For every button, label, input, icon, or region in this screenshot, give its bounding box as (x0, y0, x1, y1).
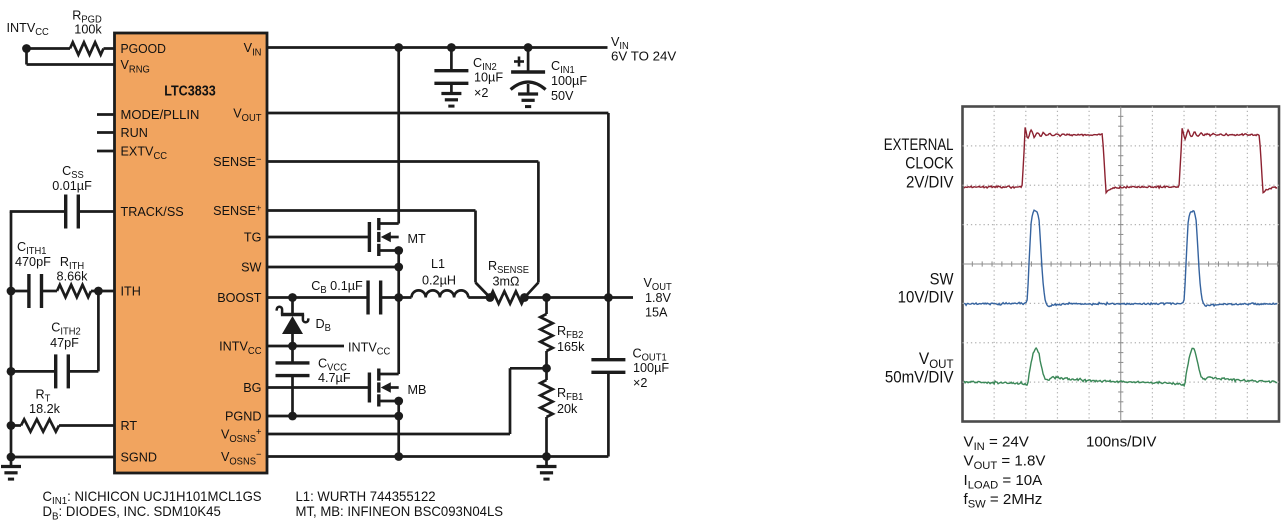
svg-text:PGND: PGND (225, 408, 262, 423)
wire VOUT feedback drop (607, 113, 610, 298)
wire RFB1 top lead (545, 368, 548, 380)
plus sign CIN1 (514, 60, 524, 63)
svg-text:RT: RT (120, 418, 137, 433)
svg-text:100µF: 100µF (633, 360, 669, 375)
wire MB source down (397, 401, 400, 457)
wire SENSE- horizontal (267, 160, 538, 163)
wire SENSE+ horizontal (267, 209, 476, 212)
wire CIN2 to ground (450, 84, 453, 94)
svg-text:BG: BG (243, 380, 261, 395)
svg-text:TG: TG (244, 229, 262, 244)
wire COUT bottom lead (607, 373, 610, 457)
junction CVCC PGND (288, 412, 297, 421)
wire VIN rail (267, 46, 608, 49)
wire output rail (525, 296, 634, 299)
svg-text:PGOOD: PGOOD (121, 41, 167, 57)
wire CIN1 to ground (527, 84, 530, 94)
wire VOSNS+ riser (509, 368, 512, 434)
wire CB to L1 (380, 296, 411, 299)
waveform SW trace (blue) (964, 210, 1277, 306)
wire COUT top lead (607, 298, 610, 360)
wire CITH2 riser (97, 291, 100, 371)
junction rail SGND (7, 453, 16, 462)
wire RPGD to PGOOD pin (104, 47, 115, 50)
wire VOUT pin (267, 112, 608, 115)
op IC U1 LTC3833 body (115, 33, 268, 473)
wire left rail vertical (10, 212, 13, 467)
wire SENSE+ vertical (474, 211, 477, 283)
junction SW (394, 263, 403, 272)
wire DB anode to INTVCC wire (291, 334, 294, 346)
svg-text:EXTERNAL: EXTERNAL (884, 137, 954, 155)
wire DB cathode stub (291, 298, 294, 314)
wire CITH2 left (11, 370, 56, 373)
wire RT to pin (59, 424, 115, 427)
junction VOSNS- MB (394, 452, 403, 461)
svg-text:L1: WURTH 744355122: L1: WURTH 744355122 (295, 489, 435, 504)
svg-text:MODE/PLLIN: MODE/PLLIN (121, 107, 200, 122)
svg-text:100µF: 100µF (551, 73, 587, 88)
wire RFB2 top lead (545, 298, 548, 315)
ground CIN2 (441, 92, 461, 95)
svg-text:100ns/DIV: 100ns/DIV (1086, 433, 1156, 450)
wire SW pin (267, 266, 399, 269)
svg-text:L1: L1 (431, 256, 445, 271)
junction SW node at CB/L1 (394, 293, 403, 302)
junction ITH-CITH2 riser (94, 287, 103, 296)
svg-text:20k: 20k (557, 401, 578, 416)
transistor MT (368, 222, 371, 252)
svg-text:SW: SW (930, 271, 954, 289)
wire VIN trunk vertical (397, 48, 400, 224)
resistor RT (21, 419, 59, 431)
wire MB drain to SW node (397, 298, 400, 375)
wire L1 to RSENSE (468, 296, 490, 299)
pin stub RUN (97, 131, 115, 134)
wire SENSE- kelvin diagonal (525, 283, 539, 298)
junction VIN trunk (394, 43, 403, 52)
junction DB boost (288, 293, 297, 302)
capacitor CSS (64, 195, 67, 229)
svg-text:50mV/DIV: 50mV/DIV (885, 369, 954, 387)
wire PGND pin (267, 415, 399, 418)
svg-text:VIN = 24V: VIN = 24V (964, 433, 1029, 453)
junction rail RT (7, 421, 16, 430)
capacitor CVCC (276, 361, 310, 364)
junction RFB2 top (542, 293, 551, 302)
ground output (537, 465, 557, 468)
resistor RFB2 (540, 314, 552, 351)
svg-text:SGND: SGND (120, 449, 157, 464)
svg-text:2V/DIV: 2V/DIV (906, 174, 954, 192)
svg-text:MT: MT (408, 231, 426, 246)
ground left rail (1, 465, 21, 468)
resistor RSENSE (490, 291, 525, 303)
transistor MB (368, 373, 371, 403)
diode DB schottky (281, 313, 304, 316)
pin stub EXTVCC (97, 150, 115, 153)
svg-text:BOOST: BOOST (217, 290, 261, 305)
wire VRNG (27, 63, 115, 66)
svg-text:165k: 165k (557, 339, 585, 354)
svg-text:0.2µH: 0.2µH (422, 272, 456, 287)
wire CITH1 to rail (11, 290, 29, 293)
svg-text:6V TO 24V: 6V TO 24V (611, 49, 676, 64)
junction RFB1 bottom (542, 452, 551, 461)
waveform EXTERNAL CLOCK trace (red) (964, 127, 1277, 192)
wire CITH2 right (69, 370, 99, 373)
inductor L1 (412, 290, 469, 297)
junction MB PGND (394, 412, 403, 421)
waveform VOUT ripple trace (green) (964, 348, 1277, 386)
svg-text:4.7µF: 4.7µF (318, 370, 351, 385)
capacitor CIN2 (434, 69, 468, 72)
wire RITH to CITH1 (42, 290, 57, 293)
junction CIN1 (524, 43, 533, 52)
svg-text:10V/DIV: 10V/DIV (898, 289, 954, 307)
wire CVCC to PGND (291, 375, 294, 417)
resistor RITH (57, 285, 91, 297)
junction RSENSE right (520, 293, 529, 302)
wire BOOST pin to CB (267, 296, 368, 299)
wire INTVCC down (25, 47, 28, 64)
svg-text:0.01µF: 0.01µF (52, 178, 92, 193)
svg-text:1.8V: 1.8V (645, 290, 671, 305)
svg-text:8.66k: 8.66k (57, 268, 88, 283)
wire VOSNS- pin (267, 455, 608, 458)
junction rail ITH (7, 287, 16, 296)
wire rail to RT (11, 424, 21, 427)
capacitor CIN1 polarized (511, 70, 545, 73)
svg-text:47pF: 47pF (50, 335, 79, 350)
wire ground stub output (545, 457, 548, 467)
wire SENSE- vertical (537, 162, 540, 283)
wire TG (267, 236, 369, 239)
wire SENSE+ kelvin diagonal (476, 283, 491, 298)
pin stub MODE/PLLIN (97, 113, 115, 116)
wire RFB1 bottom lead (545, 417, 548, 457)
svg-text:3mΩ: 3mΩ (492, 273, 519, 288)
svg-text:RUN: RUN (120, 125, 147, 140)
wire TRACK/SS pin to CSS (79, 210, 115, 213)
svg-text:TRACK/SS: TRACK/SS (120, 204, 184, 219)
svg-text:LTC3833: LTC3833 (164, 83, 215, 99)
capacitor CB (366, 281, 369, 315)
junction rail CITH2 (7, 367, 16, 376)
capacitor COUT1 (591, 358, 625, 361)
capacitor CITH1 (27, 274, 30, 308)
svg-text:100k: 100k (74, 21, 102, 36)
svg-text:SENSE−: SENSE− (213, 154, 262, 169)
svg-text:×2: ×2 (474, 85, 488, 100)
capacitor CITH2 (54, 354, 57, 388)
junction CIN2 (447, 43, 456, 52)
wire VOSNS+ pin (267, 433, 510, 436)
junction divider tap (542, 364, 551, 373)
junction INTVCC node (22, 44, 31, 53)
wire INTVCC to CVCC (291, 346, 294, 364)
svg-text:50V: 50V (551, 88, 574, 103)
svg-text:10µF: 10µF (474, 69, 503, 84)
junction RSENSE left (486, 293, 495, 302)
wire CIN1 stub (527, 48, 530, 73)
svg-text:×2: ×2 (633, 375, 647, 390)
svg-text:ITH: ITH (120, 283, 140, 298)
resistor RFB1 (540, 380, 552, 417)
svg-text:MT, MB: INFINEON BSC093N04LS: MT, MB: INFINEON BSC093N04LS (295, 504, 503, 519)
svg-text:15A: 15A (645, 304, 668, 319)
svg-text:470pF: 470pF (15, 254, 51, 269)
svg-text:CLOCK: CLOCK (905, 155, 953, 173)
wire CIN2 stub (450, 48, 453, 71)
junction INTVCC wire (288, 342, 297, 351)
wire INTVCC pin (267, 345, 344, 348)
wire VOSNS+ to divider tap (510, 367, 547, 370)
svg-text:MB: MB (408, 382, 427, 397)
wire CSS to left rail (10, 210, 66, 213)
wire SGND (11, 456, 115, 459)
scope center axis lines with ticks (963, 107, 1280, 422)
scope grid dotted lines (963, 107, 1280, 422)
ground CIN1 (518, 92, 538, 95)
wire ITH pin segment (91, 290, 115, 293)
junction COUT node (604, 293, 613, 302)
svg-text:SW: SW (241, 259, 262, 274)
scope plot frame (963, 107, 1280, 422)
wire INTVCC node to RPGD (27, 47, 71, 50)
svg-text:18.2k: 18.2k (29, 401, 60, 416)
svg-text:SENSE+: SENSE+ (213, 203, 262, 218)
wire RFB2 bottom lead (545, 351, 548, 368)
wire MT source to SW node (397, 251, 400, 298)
wire BG (267, 386, 369, 389)
resistor RPGD (70, 42, 104, 54)
